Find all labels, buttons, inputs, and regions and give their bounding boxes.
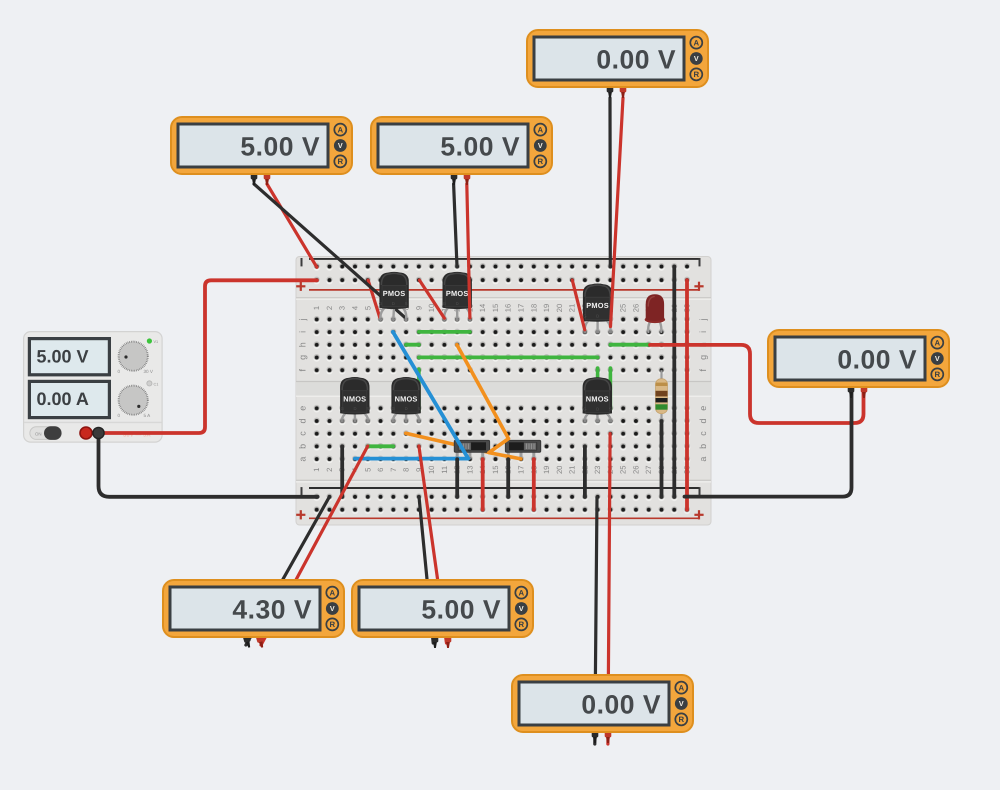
wire green f24 to e24 (column 24 bridge behind Q6) <box>609 368 613 410</box>
wire red b5 to multimeter M5 red probe <box>261 446 368 645</box>
multimeter M3 reading 0.00 V <box>527 30 708 98</box>
wire black multimeter M4 black probe to bottom minus rail <box>685 392 852 497</box>
svg-text:R: R <box>337 157 343 166</box>
svg-text:NMOS: NMOS <box>395 394 418 403</box>
svg-text:A: A <box>693 38 699 47</box>
wire red V+ rail col9 to PMOS Q2 gate j11 <box>419 280 444 318</box>
svg-text:G: G <box>583 314 586 319</box>
svg-text:21: 21 <box>568 304 577 312</box>
svg-text:4: 4 <box>351 306 360 310</box>
wire orange h12 to switch S2 middle pin a17 <box>457 345 521 459</box>
wire black b3 to bottom minus rail <box>340 446 344 497</box>
wire red V+ rail col21 to PMOS Q3 gate i22 <box>572 280 584 330</box>
wire red h28 to multimeter M4 red probe <box>650 345 864 423</box>
wire green f23 to e23 (column 23 bridge behind Q6) <box>596 368 600 410</box>
svg-text:g: g <box>298 355 308 360</box>
svg-text:18: 18 <box>529 304 538 312</box>
LED D1 (red, legs i27 i28) <box>645 294 665 332</box>
svg-text:17: 17 <box>517 304 526 312</box>
svg-text:V: V <box>338 141 343 150</box>
svg-text:A: A <box>518 588 524 597</box>
wire black bottom minus rail col23 to multimeter M7 black probe <box>595 497 597 744</box>
wire black top minus rail to bottom minus rail col29 <box>672 267 676 497</box>
transistor Q4 NMOS <box>340 377 369 423</box>
svg-text:7: 7 <box>389 468 398 472</box>
wire green h24 to h27 <box>610 343 648 347</box>
svg-text:26: 26 <box>632 466 641 474</box>
wire red V+ rail col5 to PMOS Q1 gate j6 <box>368 280 380 318</box>
wire multimeter M3 black probe to top minus rail col24 <box>608 98 611 267</box>
svg-text:i: i <box>298 331 308 333</box>
svg-text:2: 2 <box>325 306 334 310</box>
wire green f9 to e9 (column 9 bridge behind Q4) <box>417 369 421 412</box>
svg-text:e: e <box>298 406 308 411</box>
svg-text:G: G <box>583 406 586 411</box>
svg-text:5 A: 5 A <box>144 413 152 418</box>
power supply PS1 (5.00 V, 0.00 A) <box>24 332 163 443</box>
wire black b22 to bottom minus rail <box>583 446 587 497</box>
transistor Q1 PMOS <box>379 272 409 321</box>
multimeter M6 reading 5.00 V <box>352 580 533 648</box>
svg-text:25: 25 <box>619 304 628 312</box>
svg-text:26: 26 <box>632 304 641 312</box>
svg-text:S: S <box>609 406 612 411</box>
wire multimeter M1 red probe to top minus rail hole 1 <box>267 184 317 267</box>
breadboard <box>296 257 711 526</box>
svg-text:17: 17 <box>517 466 526 474</box>
svg-text:19: 19 <box>542 466 551 474</box>
svg-text:20: 20 <box>555 304 564 312</box>
svg-text:6: 6 <box>376 468 385 472</box>
svg-text:S: S <box>366 406 369 411</box>
svg-text:c: c <box>298 431 308 436</box>
svg-text:2: 2 <box>325 468 334 472</box>
svg-text:R: R <box>693 70 699 79</box>
svg-text:0.00 V: 0.00 V <box>581 690 661 720</box>
svg-text:0: 0 <box>118 413 121 418</box>
svg-text:23: 23 <box>593 466 602 474</box>
svg-text:5: 5 <box>363 306 372 310</box>
svg-text:PMOS: PMOS <box>586 301 609 310</box>
svg-text:d: d <box>298 418 308 423</box>
svg-text:D: D <box>392 301 395 306</box>
slide switch S1 <box>454 440 489 459</box>
svg-text:4.30 V: 4.30 V <box>232 595 312 625</box>
svg-text:c: c <box>698 431 708 436</box>
svg-text:R: R <box>678 715 684 724</box>
wire orange c8 to switch S2 middle pin (runs behind S1) <box>406 433 489 452</box>
svg-text:19: 19 <box>542 304 551 312</box>
svg-text:g: g <box>698 355 708 360</box>
wire multimeter M1 black probe to breadboard j8 <box>254 184 406 318</box>
svg-text:S: S <box>418 406 421 411</box>
svg-text:0: 0 <box>118 369 121 374</box>
svg-text:5.00 V: 5.00 V <box>37 346 89 366</box>
multimeter M4 reading 0.00 V <box>768 330 949 398</box>
svg-text:V: V <box>538 141 543 150</box>
svg-text:R: R <box>537 157 543 166</box>
svg-text:G: G <box>379 301 382 306</box>
svg-text:j: j <box>298 318 308 321</box>
wire multimeter M2 black probe to top minus rail col12 <box>454 184 457 267</box>
svg-text:d: d <box>698 418 708 423</box>
svg-text:a: a <box>298 457 308 462</box>
wire green h8 to h9 <box>406 343 419 347</box>
multimeter M1 reading 5.00 V <box>171 117 352 185</box>
wire black bottom minus rail col9 to multimeter M6 black probe <box>419 497 433 643</box>
svg-text:e: e <box>698 406 708 411</box>
svg-text:14: 14 <box>478 304 487 312</box>
svg-text:PMOS: PMOS <box>446 289 469 298</box>
svg-text:G: G <box>341 406 344 411</box>
svg-text:15: 15 <box>491 304 500 312</box>
transistor Q3 PMOS <box>583 284 612 334</box>
wire green g9 to g23 <box>419 355 598 359</box>
svg-text:13: 13 <box>465 466 474 474</box>
wire black switch S1 pin a12 to bottom minus rail <box>455 459 459 497</box>
svg-text:9: 9 <box>414 306 423 310</box>
wire black power supply PS1 negative terminal to bottom minus rail hole 1 <box>99 433 318 497</box>
wire black bottom minus rail col2 to multimeter M5 black probe <box>246 497 330 645</box>
wire multimeter M2 red probe to j13 <box>467 184 470 318</box>
svg-text:V: V <box>679 699 684 708</box>
svg-text:b: b <box>298 444 308 449</box>
wire green b5 to b7 <box>368 444 394 448</box>
power supply PS1 negative terminal <box>93 427 104 438</box>
svg-text:G: G <box>443 301 446 306</box>
svg-text:1: 1 <box>312 468 321 472</box>
transistor Q2 PMOS <box>443 272 472 321</box>
resistor R1 (f28 to d28) <box>656 370 668 421</box>
multimeter M2 reading 5.00 V <box>371 117 552 185</box>
svg-text:R: R <box>934 370 940 379</box>
svg-text:A: A <box>337 125 343 134</box>
wire red top plus rail to bottom plus rail col30 <box>685 280 689 510</box>
svg-text:0.00 V: 0.00 V <box>596 45 676 75</box>
slide switch S2 <box>505 440 540 459</box>
wire red b9 to multimeter M6 red probe <box>419 446 447 643</box>
svg-text:D: D <box>353 406 356 411</box>
svg-text:11: 11 <box>440 466 449 474</box>
transistor Q6 NMOS <box>583 377 613 422</box>
svg-text:5.00 V: 5.00 V <box>421 595 501 625</box>
svg-text:R: R <box>329 620 335 629</box>
svg-text:21: 21 <box>568 466 577 474</box>
svg-text:NMOS: NMOS <box>343 394 366 403</box>
svg-text:PMOS: PMOS <box>383 289 406 298</box>
svg-text:0.00 A: 0.00 A <box>37 389 89 409</box>
multimeter M7 reading 0.00 V <box>512 675 693 743</box>
svg-text:25: 25 <box>619 466 628 474</box>
svg-text:NMOS: NMOS <box>586 395 609 404</box>
wire red c24 to multimeter M7 red probe <box>608 434 610 744</box>
svg-text:0.00 V: 0.00 V <box>837 345 917 375</box>
svg-text:j: j <box>698 318 708 321</box>
wire green i9 to i13 <box>419 330 470 334</box>
svg-text:i: i <box>698 331 708 333</box>
svg-text:D: D <box>596 406 599 411</box>
wire black switch S2 pin a16 to bottom minus rail <box>506 459 510 497</box>
svg-text:5.00 V: 5.00 V <box>440 132 520 162</box>
wire red switch S1 pin a14 to bottom plus rail <box>481 459 485 510</box>
svg-text:D: D <box>596 314 599 319</box>
wire red switch S2 pin a18 to bottom plus rail <box>532 459 536 510</box>
svg-text:A: A <box>329 588 335 597</box>
svg-text:V: V <box>935 354 940 363</box>
wire blue j7-column i7 to a13 to a4 <box>355 332 468 459</box>
svg-text:16: 16 <box>504 304 513 312</box>
svg-text:C1: C1 <box>154 382 159 386</box>
svg-text:a: a <box>698 457 708 462</box>
wire red power supply PS1 positive terminal to top plus rail hole 1 <box>86 280 317 433</box>
svg-text:A: A <box>934 338 940 347</box>
svg-text:3: 3 <box>338 306 347 310</box>
svg-text:1: 1 <box>312 306 321 310</box>
svg-text:b: b <box>698 444 708 449</box>
svg-text:D: D <box>456 301 459 306</box>
svg-text:R: R <box>518 620 524 629</box>
svg-text:8: 8 <box>402 468 411 472</box>
svg-text:A: A <box>678 683 684 692</box>
multimeter M5 reading 4.30 V <box>163 580 344 648</box>
svg-text:h: h <box>298 342 308 347</box>
wire multimeter M3 red probe to i24 <box>611 98 624 327</box>
power supply PS1 positive terminal <box>80 427 92 439</box>
svg-text:V: V <box>519 604 524 613</box>
svg-text:D: D <box>405 406 408 411</box>
svg-text:27: 27 <box>644 466 653 474</box>
transistor Q5 NMOS <box>391 377 420 423</box>
svg-text:G: G <box>392 406 395 411</box>
svg-text:30 V: 30 V <box>144 369 154 374</box>
svg-text:5.00 V: 5.00 V <box>240 132 320 162</box>
svg-text:ON: ON <box>35 431 42 436</box>
svg-text:20: 20 <box>555 466 564 474</box>
wire black d28 to bottom minus rail <box>660 421 664 497</box>
svg-text:V: V <box>330 604 335 613</box>
svg-text:A: A <box>537 125 543 134</box>
svg-text:S: S <box>405 301 408 306</box>
svg-text:15: 15 <box>491 466 500 474</box>
svg-text:10: 10 <box>427 466 436 474</box>
svg-text:V1: V1 <box>154 340 159 344</box>
svg-text:5: 5 <box>363 468 372 472</box>
svg-text:V: V <box>694 54 699 63</box>
